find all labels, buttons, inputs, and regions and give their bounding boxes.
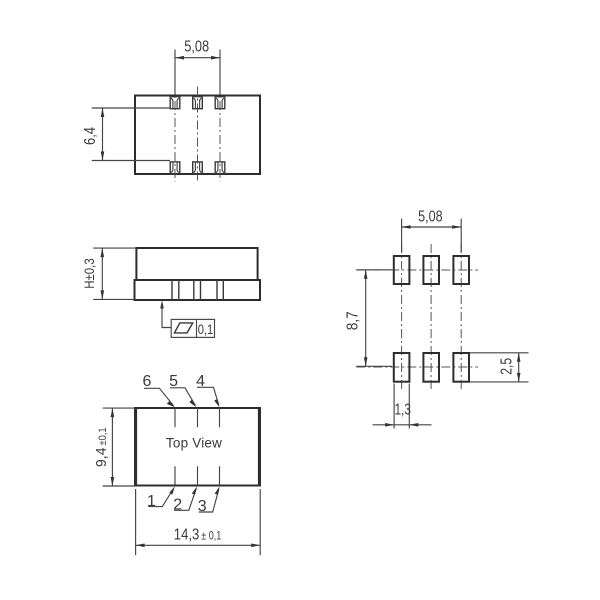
pin top-middle view1 [193, 97, 203, 109]
package body side view [136, 248, 257, 280]
pad centerline row bottom [356, 366, 478, 368]
dimension 5,08 view1 [175, 39, 220, 96]
centerline pin column 3 [219, 84, 221, 182]
pad centerline column 1 [401, 244, 403, 392]
pin stub bottom-1 [174, 466, 176, 485]
pin bottom-right view1 [215, 162, 225, 174]
pad top-middle [423, 256, 439, 284]
svg-text:Top View: Top View [166, 436, 222, 451]
pad bottom-middle [423, 353, 439, 382]
pad top-left [394, 256, 410, 284]
svg-text:5,08: 5,08 [184, 39, 209, 56]
dimension H±0,3 [81, 248, 136, 299]
pin bottom-left view1 [170, 162, 180, 174]
pad bottom-right [453, 353, 469, 382]
dimension 5,08 land pattern [402, 208, 462, 252]
dimension 1,3 land pattern [373, 384, 432, 429]
svg-text:1,3: 1,3 [394, 402, 411, 419]
pin stub top-2 [197, 408, 199, 427]
pin stub top-1 [174, 408, 176, 427]
svg-text:1: 1 [147, 493, 156, 510]
pin number 3 leader [198, 486, 220, 515]
pin bottom-middle view1 [193, 162, 203, 174]
pin top-left view1 [170, 97, 180, 109]
pin number 5 leader [169, 373, 196, 407]
pin stub bottom-3 [219, 466, 221, 485]
pin number 4 leader [196, 373, 219, 407]
svg-text:5,08: 5,08 [418, 208, 443, 225]
svg-text:2,5: 2,5 [499, 358, 516, 375]
pin stub bottom-2 [197, 466, 199, 485]
centerline pin column 1 [174, 84, 176, 182]
pin lines side view left [172, 280, 179, 300]
top view body outline [135, 408, 260, 486]
svg-text:6: 6 [143, 373, 152, 390]
flatness leader arrow [160, 300, 171, 327]
pad centerline row top [356, 269, 478, 271]
dimension 8,7 land pattern [345, 270, 393, 367]
dimension 6,4 view1 [82, 108, 170, 161]
pin stub top-3 [219, 408, 221, 427]
svg-text:6,4: 6,4 [82, 127, 99, 145]
pad centerline column 3 [460, 244, 462, 392]
pad centerline column 2 [430, 244, 432, 392]
seating strip side view [135, 280, 261, 300]
svg-text:0,1: 0,1 [198, 321, 214, 337]
pin lines side view right [217, 280, 223, 300]
flatness feature control frame [171, 319, 214, 337]
pin number 1 leader [147, 486, 175, 510]
dimension 14,3±0,1 [136, 489, 261, 555]
svg-text:8,7: 8,7 [345, 311, 362, 330]
pin number 2 leader [173, 486, 197, 513]
centerline pin column 2 [197, 87, 199, 182]
pin number 6 leader [143, 373, 175, 407]
pad top-right [453, 256, 469, 284]
svg-text:H±0,3: H±0,3 [81, 258, 97, 289]
pin top-right view1 [215, 97, 225, 109]
dimension 9,4±0,1 [93, 408, 135, 486]
pin lines side view middle [194, 280, 201, 300]
package body outline view1 [135, 96, 260, 175]
label Top View [166, 436, 222, 451]
dimension 2,5 land pattern [470, 353, 529, 382]
pad bottom-left [394, 353, 410, 382]
